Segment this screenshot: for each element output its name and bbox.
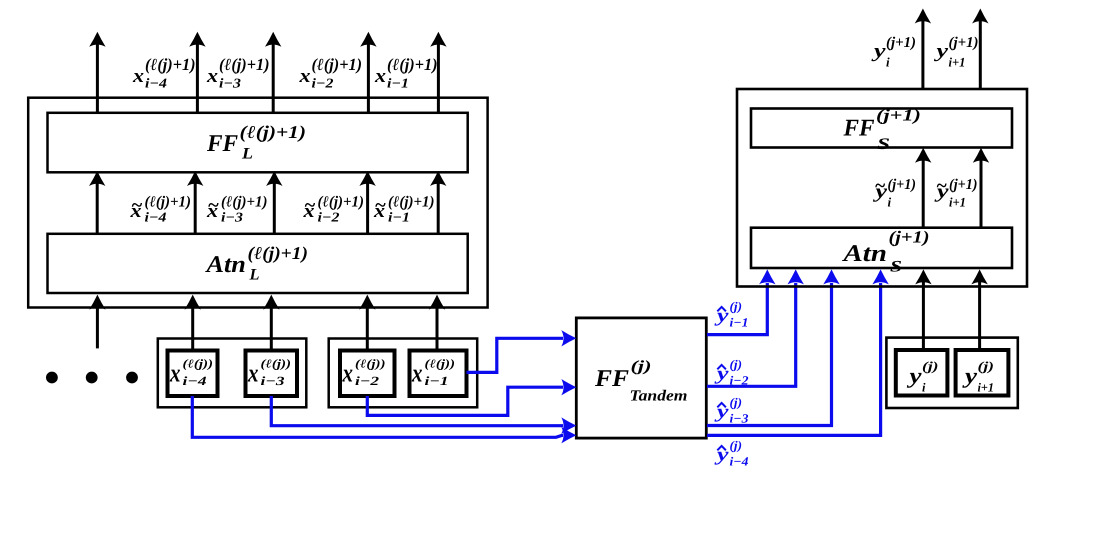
left input arrow 5: [429, 295, 445, 351]
FF_L block: [48, 113, 468, 173]
input group box A: [158, 339, 306, 408]
right input arrow y_i: [915, 269, 931, 350]
blue wire from x_i-4 to FF_Tandem input 4: [192, 396, 576, 443]
blue wire from x_i-3 to FF_Tandem input 3: [271, 396, 576, 434]
blue wire from x_i-2 to FF_Tandem input 2: [367, 379, 576, 415]
left input arrow 3: [263, 295, 279, 351]
left input arrow 4: [359, 295, 375, 351]
left top output arrow 5: [430, 32, 446, 113]
input group box B: [329, 339, 478, 408]
FF_S block: [751, 109, 1012, 148]
input token box x_i-1: [410, 351, 467, 397]
Atn_L block: [48, 234, 468, 293]
blue wire from x_i-1 to FF_Tandem input 1: [467, 330, 577, 372]
blue wire yhat_i-1 from FF_Tandem to Atn_S: [707, 269, 776, 334]
right Atn_S to FF_S arrow 1: [915, 148, 931, 228]
left input arrow 2: [185, 295, 201, 351]
right top output arrow 1: [915, 9, 931, 90]
blue wire yhat_i-4 from FF_Tandem to Atn_S: [707, 269, 889, 435]
blue wire yhat_i-3 from FF_Tandem to Atn_S: [707, 269, 840, 425]
left Atn to FF arrow 5: [430, 171, 446, 234]
left top output arrow 2: [189, 32, 205, 113]
y_i token box: [896, 350, 948, 396]
left top output arrow 4: [360, 32, 376, 113]
Atn_S block: [751, 228, 1012, 268]
FF_Tandem block: [576, 318, 706, 438]
y input group box: [886, 338, 1017, 408]
left Atn to FF arrow 1: [89, 171, 105, 234]
ellipsis dots: [46, 372, 138, 384]
left top output arrow 1: [89, 32, 105, 113]
left Atn to FF arrow 3: [266, 171, 282, 234]
right Atn_S to FF_S arrow 2: [973, 148, 989, 228]
left Atn to FF arrow 2: [187, 171, 203, 234]
right top output arrow 2: [972, 9, 988, 90]
left Atn to FF arrow 4: [359, 171, 375, 234]
left input arrow from ellipsis: [89, 295, 105, 349]
input token box x_i-2: [340, 351, 395, 397]
input token box x_i-3: [246, 351, 298, 397]
left top output arrow 3: [265, 32, 281, 113]
right transformer outer box: [737, 89, 1027, 287]
y_i+1 token box: [956, 350, 1009, 396]
blue wire yhat_i-2 from FF_Tandem to Atn_S: [707, 269, 804, 386]
right input arrow y_i+1: [971, 269, 987, 350]
input token box x_i-4: [168, 351, 218, 397]
left transformer outer box: [28, 98, 487, 308]
